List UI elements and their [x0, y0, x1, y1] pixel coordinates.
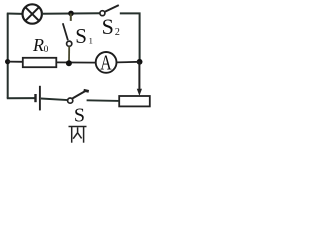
resistor R0 body: [23, 58, 57, 67]
battery negative plate (short): [34, 94, 36, 102]
wire S1 down to middle row: [68, 46, 70, 63]
wire battery to switch S: [41, 99, 68, 101]
node junction dot right: [137, 59, 143, 65]
switch S blade: [73, 91, 86, 99]
wire resistor to ammeter: [56, 61, 96, 63]
switch S1 stub: [70, 13, 72, 21]
wire switch S to rheostat: [87, 99, 120, 102]
node junction dot S1 bottom: [66, 60, 72, 66]
wire left vertical: [7, 13, 9, 98]
switch S2 blade: [105, 5, 119, 12]
rheostat slider arrow: [138, 62, 140, 90]
ammeter A: [96, 51, 117, 75]
wire S2 fixed side to right corner and down: [120, 13, 140, 62]
switch S2 pivot circle: [100, 11, 105, 16]
switch S1 pivot circle: [67, 41, 72, 46]
node junction dot top (S1 tap): [68, 11, 74, 17]
svg-text:2: 2: [115, 27, 120, 38]
wire ammeter to right node: [117, 61, 140, 64]
svg-text:A: A: [100, 51, 112, 75]
lamp (circle with X): [23, 4, 42, 23]
svg-text:1: 1: [89, 36, 93, 46]
switch S1 blade: [63, 23, 68, 40]
svg-text:R: R: [32, 35, 44, 55]
wire lamp to S2: [42, 12, 100, 15]
node junction dot left middle: [5, 59, 10, 64]
switch S blade tip handle: [84, 90, 89, 91]
svg-text:0: 0: [44, 45, 49, 55]
svg-text:S: S: [74, 105, 85, 127]
switch S pivot circle: [68, 98, 73, 103]
rheostat body R: [119, 96, 150, 106]
label 丙 (drawn strokes): [69, 127, 87, 143]
battery positive plate (long): [39, 86, 41, 111]
svg-text:S: S: [75, 24, 87, 48]
wire bottom left (corner to battery): [7, 97, 35, 99]
wire top left (corner to lamp): [7, 13, 23, 15]
wire left to resistor R0: [8, 61, 24, 63]
svg-text:S: S: [102, 14, 114, 39]
